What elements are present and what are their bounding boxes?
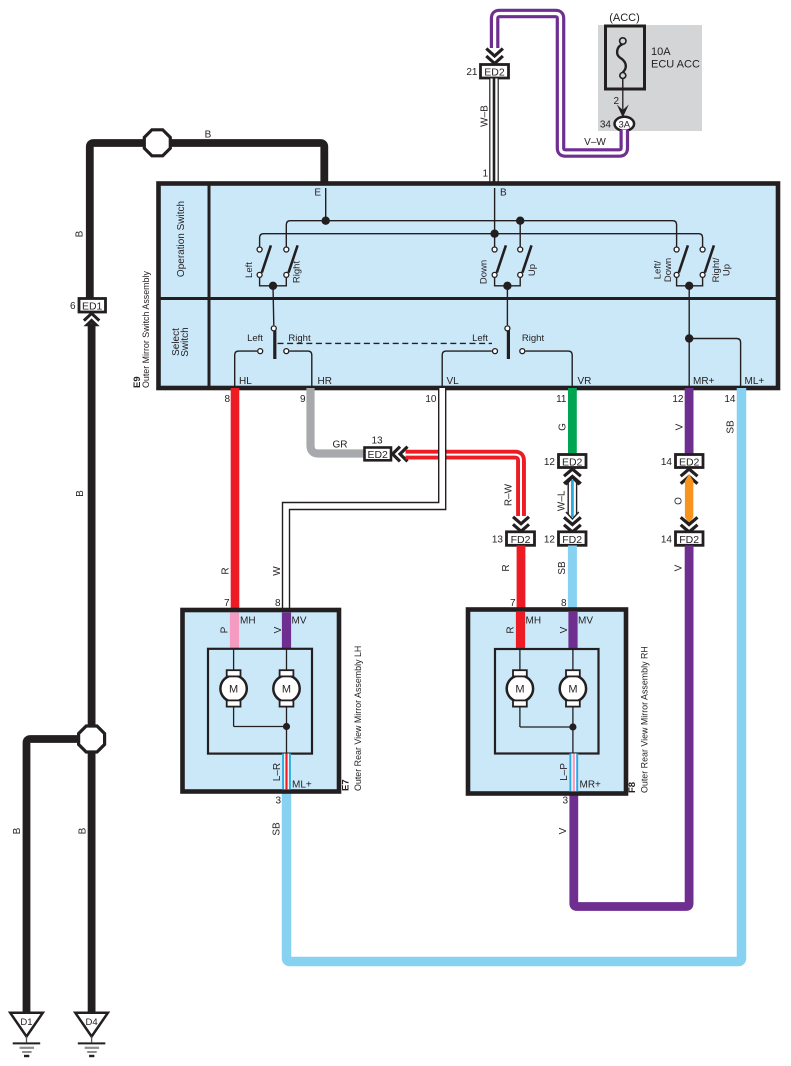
svg-text:Left/: Left/ (653, 260, 664, 279)
wire SB (ML+ to LH mirror ML+) (287, 388, 742, 962)
svg-text:Left: Left (472, 333, 488, 344)
svg-text:R–W: R–W (504, 483, 515, 506)
svg-text:12: 12 (544, 534, 556, 545)
svg-text:11: 11 (556, 394, 567, 405)
svg-text:SB: SB (272, 822, 283, 836)
svg-text:Outer Mirror Switch Assembly: Outer Mirror Switch Assembly (141, 271, 151, 388)
wire motors common (RH) (520, 723, 577, 730)
svg-text:Right: Right (288, 333, 311, 344)
svg-text:L–R: L–R (272, 763, 283, 781)
wire V (MR+ to ED2 14) (685, 388, 694, 454)
svg-text:R: R (221, 567, 232, 574)
label Left/Down (653, 258, 675, 282)
svg-text:B: B (12, 827, 23, 834)
svg-text:R: R (506, 626, 517, 633)
svg-text:Right: Right (292, 261, 303, 284)
connector ED2 pin 14 (676, 455, 704, 469)
svg-text:Down: Down (479, 260, 490, 284)
svg-text:8: 8 (224, 394, 230, 405)
arrow out of ED2 13 (393, 447, 408, 462)
svg-text:7: 7 (224, 598, 230, 609)
wire R-W (ED2 13 to FD2 13) (406, 455, 522, 516)
ground D4 (75, 1013, 108, 1056)
switch Right (operation) (284, 245, 298, 277)
wire O (ED2 14 to FD2 14) (685, 474, 693, 524)
svg-text:B: B (78, 827, 89, 834)
switch Left (operation) (257, 245, 271, 277)
arrow into ED1 (84, 313, 100, 326)
wire G (VR to ED2 12) (568, 388, 577, 454)
wire V (RH MV stub) (568, 612, 577, 649)
wire W-L (ED2 12 to FD2 12) (566, 478, 579, 519)
svg-text:9: 9 (300, 394, 306, 405)
svg-text:MR+: MR+ (580, 780, 602, 791)
dashed gang line (278, 342, 493, 344)
svg-text:3A: 3A (618, 119, 630, 130)
svg-text:FD2: FD2 (511, 534, 531, 546)
wire B to Down (494, 234, 496, 250)
svg-text:M: M (229, 684, 238, 696)
arrow into 3A (617, 105, 629, 118)
svg-text:ED2: ED2 (367, 449, 388, 461)
svg-text:FD2: FD2 (679, 534, 699, 546)
svg-text:ED1: ED1 (82, 301, 103, 313)
select switch 1 contact right, wire to HR (284, 349, 312, 388)
wire E bus (286, 221, 676, 250)
splice octagon (bottom) (79, 726, 105, 752)
connector 3A (615, 117, 635, 131)
svg-text:SB: SB (726, 420, 737, 434)
svg-text:SB: SB (557, 561, 568, 575)
select switch 2 pole (505, 326, 510, 359)
svg-text:MV: MV (292, 616, 307, 627)
connector ED2 pin 12 (559, 455, 587, 469)
wire R (HL to LH mirror MH) (231, 388, 240, 611)
wire W-B (ED2 21 to switch pin 1) (489, 79, 499, 186)
junction block (gray) (598, 25, 702, 131)
svg-text:Outer Rear View Mirror Assembl: Outer Rear View Mirror Assembly RH (640, 646, 650, 793)
arrow into FD2 14 (681, 517, 698, 532)
motor M (RH horizontal) (507, 649, 533, 727)
wire B (switch pin 7 to grounds) (27, 143, 325, 1014)
svg-text:P: P (220, 626, 231, 633)
svg-text:R: R (501, 564, 512, 571)
wire GR (HR to ED2 13) (311, 388, 365, 454)
svg-text:ML+: ML+ (292, 780, 312, 791)
svg-text:G: G (558, 423, 569, 431)
select switch 1 contact left, wire to HL (235, 349, 263, 388)
switch Up (518, 245, 532, 277)
svg-text:Operation Switch: Operation Switch (176, 201, 187, 277)
arrow into ED2 21 (486, 49, 503, 64)
svg-text:D1: D1 (20, 1017, 32, 1028)
svg-text:Left: Left (244, 262, 255, 278)
switch Left/Down (674, 245, 688, 277)
svg-text:MR+: MR+ (693, 376, 715, 387)
svg-text:V: V (675, 423, 686, 430)
svg-text:Outer Rear View Mirror Assembl: Outer Rear View Mirror Assembly LH (353, 646, 363, 791)
svg-text:2: 2 (613, 96, 619, 107)
svg-text:O: O (674, 497, 685, 505)
arrow out of ED2 12 (564, 469, 581, 484)
svg-text:B: B (75, 230, 86, 237)
wire L-P (RH to MR+ pin) (569, 754, 578, 792)
svg-text:FD2: FD2 (562, 534, 582, 546)
svg-text:ECU ACC: ECU ACC (651, 59, 700, 71)
svg-text:14: 14 (661, 457, 673, 468)
svg-text:13: 13 (371, 436, 383, 447)
motor M (LH vertical) (273, 649, 299, 754)
inner box (LH) (208, 649, 312, 754)
switch assembly E9 box (159, 184, 779, 389)
svg-text:F8: F8 (627, 782, 638, 793)
svg-text:V–W: V–W (584, 137, 606, 148)
motor M (RH vertical) (560, 649, 586, 754)
svg-text:GR: GR (333, 440, 348, 451)
switch Right/Up (700, 245, 714, 277)
svg-text:21: 21 (466, 67, 478, 78)
connector FD2 pin 14 (676, 532, 704, 546)
junction dot E to Up (516, 217, 524, 250)
connector FD2 pin 12 (559, 532, 587, 546)
motor M (LH horizontal) (220, 649, 246, 727)
label Right/Up (711, 257, 733, 282)
svg-text:V: V (559, 626, 570, 633)
svg-text:L–P: L–P (559, 763, 570, 781)
node B (490, 188, 507, 238)
select switch 1 pole (271, 326, 276, 359)
wire R (FD2 13 to RH mirror MH) (517, 546, 526, 612)
select switch 2 contact left, wire to VL (442, 349, 497, 388)
svg-text:B: B (500, 188, 507, 199)
inner box (RH) (495, 649, 599, 754)
fuse ECU ACC 10A (606, 26, 645, 89)
svg-text:HL: HL (239, 376, 252, 387)
wire motors common (LH) (234, 723, 291, 730)
svg-text:W–L: W–L (557, 490, 568, 511)
svg-text:(ACC): (ACC) (609, 12, 640, 24)
svg-text:Right/: Right/ (711, 257, 722, 282)
svg-text:M: M (568, 684, 577, 696)
svg-text:B: B (205, 130, 212, 141)
svg-text:12: 12 (672, 394, 684, 405)
svg-text:3: 3 (275, 796, 281, 807)
switch Down (492, 245, 506, 277)
connector ED2 pin 21 (481, 65, 509, 79)
svg-text:12: 12 (544, 457, 556, 468)
connector ED2 pin 13 (365, 448, 392, 462)
svg-text:14: 14 (661, 534, 673, 545)
svg-text:34: 34 (600, 119, 612, 130)
svg-text:7: 7 (321, 169, 327, 180)
svg-text:6: 6 (70, 301, 76, 312)
svg-text:Switch: Switch (180, 327, 191, 356)
svg-text:14: 14 (724, 394, 736, 405)
node MR+/ML+ split (685, 334, 741, 388)
svg-text:HR: HR (318, 376, 332, 387)
svg-text:ED2: ED2 (679, 456, 700, 468)
wire SB (FD2 12 to RH mirror MV) (568, 546, 577, 612)
label Select Switch (171, 327, 191, 356)
svg-text:Up: Up (527, 264, 538, 276)
wire group3 common (677, 278, 703, 339)
svg-text:10A: 10A (651, 46, 671, 58)
arrow into FD2 12 (564, 517, 581, 532)
label 10A ECU ACC (651, 46, 700, 71)
wire group2 common (495, 278, 521, 325)
svg-text:V: V (674, 564, 685, 571)
svg-text:3: 3 (562, 796, 568, 807)
arrow into FD2 13 (513, 517, 529, 532)
connector FD2 pin 13 (507, 532, 535, 546)
wire P (LH MH stub) (230, 613, 239, 650)
svg-text:10: 10 (425, 394, 437, 405)
svg-text:B: B (75, 490, 86, 497)
svg-text:D4: D4 (86, 1017, 98, 1028)
svg-text:MH: MH (526, 616, 542, 627)
wire V (LH MV stub) (282, 613, 291, 650)
svg-text:E7: E7 (341, 779, 352, 791)
svg-text:8: 8 (275, 598, 281, 609)
wire group1 common (260, 278, 287, 325)
svg-text:V: V (273, 626, 284, 633)
svg-text:Down: Down (663, 258, 674, 282)
ground D1 (10, 1013, 43, 1056)
svg-text:MV: MV (578, 616, 593, 627)
svg-text:VR: VR (578, 376, 592, 387)
select switch 2 contact right, wire to VR (520, 349, 572, 388)
svg-text:VL: VL (447, 376, 460, 387)
svg-text:Up: Up (722, 264, 733, 276)
node E (314, 188, 330, 225)
wire L-R (LH to ML+ pin) (282, 754, 291, 790)
svg-text:W–B: W–B (480, 105, 491, 127)
svg-text:13: 13 (492, 534, 504, 545)
svg-text:MH: MH (240, 616, 256, 627)
wire V (FD2 14 to RH mirror MR+) (574, 546, 689, 907)
arrow out of ED2 14 (681, 469, 698, 484)
mirror assembly E7 box (LH) (183, 610, 340, 792)
wire R (RH MH stub) (516, 612, 525, 649)
svg-text:Right: Right (522, 333, 545, 344)
svg-text:1: 1 (482, 169, 488, 180)
svg-text:E: E (314, 188, 321, 199)
svg-text:M: M (282, 684, 291, 696)
wire V-W (3A to ED2 21) (495, 14, 625, 154)
svg-text:Left: Left (247, 333, 263, 344)
svg-text:M: M (515, 684, 524, 696)
svg-text:ED2: ED2 (562, 456, 583, 468)
splice octagon (top) (144, 130, 170, 156)
connector ED1 pin 6 (79, 299, 106, 313)
wire W (VL to LH mirror MV) (286, 388, 442, 611)
svg-text:V: V (558, 827, 569, 834)
mirror assembly F8 box (RH) (468, 610, 626, 794)
svg-text:W: W (272, 566, 283, 576)
wire B bus (260, 234, 703, 250)
svg-text:ED2: ED2 (484, 67, 505, 79)
svg-text:ML+: ML+ (745, 376, 765, 387)
wire fuse to 3A (622, 79, 624, 113)
